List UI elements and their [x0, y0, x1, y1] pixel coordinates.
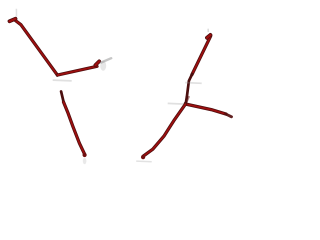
node: bond A top cap — [10, 19, 16, 22]
node: gray faint continuation of bond B — [101, 58, 111, 62]
node: bond C bottom tip — [83, 153, 87, 157]
wire: right fragment bond E core — [185, 104, 226, 114]
wire: right fragment bond D halo (upper methyl) — [192, 36, 211, 74]
node: gray remnant under left vertex — [53, 79, 72, 82]
wire: right fragment bond F halo (to lower left) — [143, 104, 185, 156]
node: gray remnant below bond C tip — [83, 158, 87, 164]
wire: right fragment bond F core — [143, 104, 185, 156]
node: gray remnant above bond A cap — [15, 9, 17, 17]
node: gray remnant right of bond B tip — [100, 61, 106, 71]
node: gray remnant under right vertex (horizontal) — [185, 82, 202, 85]
node: gray remnant left of right junction — [168, 102, 185, 105]
node: gray remnant below bond F tip — [136, 160, 152, 163]
wire: left fragment bond B core — [57, 66, 97, 75]
node: bond E dim end segment — [226, 114, 232, 117]
node: bond F bottom tip — [141, 155, 145, 159]
wire: left fragment bond C core — [64, 102, 85, 155]
wire: left fragment bond A core — [15, 21, 57, 76]
wire: bond D dim spur above junction — [186, 97, 189, 104]
wire: left fragment bond C halo (down-right, detached below vertex) — [64, 102, 85, 155]
wire: bond D dim lower tail — [186, 74, 192, 103]
wire: right fragment bond E halo (to lower right) — [185, 104, 226, 114]
wire: left fragment bond A halo (upper-left methyl bond) — [15, 21, 57, 76]
node: gray remnant above bond D cap — [207, 29, 209, 32]
node: right junction blob — [184, 102, 188, 106]
node: bond D top cap — [207, 35, 210, 38]
wire: right fragment bond D core — [192, 36, 211, 74]
wire: bond C dim upper tail — [61, 92, 64, 103]
node: bond B end tip (angled) — [95, 61, 99, 65]
wire: left fragment bond B halo (to upper right) — [57, 66, 97, 75]
